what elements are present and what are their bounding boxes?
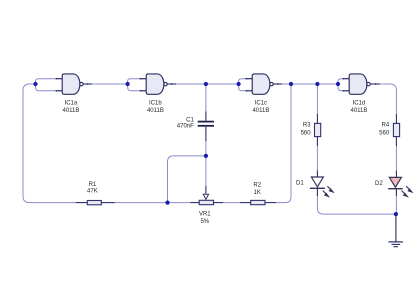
label IC1d xyxy=(350,101,367,115)
svg-text:IC1d: IC1d xyxy=(353,101,366,107)
junction: IC1b input node xyxy=(126,82,130,86)
wire: left feedback loop from IC1a input node down and along bottom to R1 xyxy=(23,84,76,203)
capacitor C1 xyxy=(198,121,214,127)
wire: C1 bottom node left and down to bottom-wire node left of VR1 xyxy=(168,156,206,203)
wire: R3 bottom to D1 anode xyxy=(316,146,318,172)
pin stubs D2 xyxy=(395,171,397,196)
pin stubs D1 xyxy=(316,171,318,197)
svg-text:560: 560 xyxy=(301,130,312,136)
label R2 value xyxy=(253,182,261,195)
nand gate IC1a xyxy=(62,74,83,94)
wire: IC1c input fork branches xyxy=(239,79,253,91)
resistor R3 xyxy=(315,123,321,136)
label IC1c xyxy=(252,101,269,115)
wire: D2 cathode down to ground node xyxy=(395,196,397,215)
junction: R3 branch node xyxy=(315,82,319,86)
resistor R2 xyxy=(251,200,265,204)
junction: VR1 left bottom-rail node xyxy=(165,201,169,205)
wire: C1 bottom to C1 bottom node xyxy=(205,141,207,156)
wire: IC1a input fork branches xyxy=(36,79,63,91)
wire: IC1b output through C1 top node to IC1c input node xyxy=(168,83,239,85)
svg-text:4011B: 4011B xyxy=(62,108,79,114)
svg-text:560: 560 xyxy=(379,130,390,136)
pin stubs R2 xyxy=(240,202,276,204)
wire: C1 top node down to C1 xyxy=(205,84,207,112)
label D1 xyxy=(296,180,304,186)
nand gate IC1b xyxy=(146,74,167,94)
label VR1 value xyxy=(199,212,211,225)
label R4 value xyxy=(379,123,390,137)
pin stubs VR1 xyxy=(191,202,224,204)
nand gate IC1d xyxy=(349,74,370,94)
svg-text:VR1: VR1 xyxy=(199,212,211,218)
pin stubs R1 xyxy=(76,202,115,204)
svg-text:IC1b: IC1b xyxy=(149,101,162,107)
label D2 xyxy=(375,181,383,187)
pin stubs R4 xyxy=(395,114,397,146)
wire: R3 branch from top rail xyxy=(316,84,318,115)
junction: C1 top node xyxy=(204,82,208,86)
svg-text:R2: R2 xyxy=(253,182,261,188)
junction: C1 bottom node xyxy=(204,154,208,158)
wire: VR1 right to R2 left xyxy=(223,202,241,204)
variable resistor VR1 xyxy=(199,186,213,205)
label R1 value xyxy=(87,182,98,195)
label IC1a xyxy=(62,101,79,115)
junction: ground node xyxy=(394,212,398,216)
nand gate IC1c xyxy=(252,74,273,94)
wire: IC1d output to R4 top xyxy=(372,84,396,115)
LED D2 xyxy=(388,177,412,196)
svg-text:IC1c: IC1c xyxy=(255,101,267,107)
svg-text:4011B: 4011B xyxy=(350,108,367,114)
wire: bottom rail between R1 and VR1 (through VR1-left node) xyxy=(114,202,192,204)
pin stubs IC1a xyxy=(56,78,93,92)
wire: IC1a output to IC1b input node xyxy=(84,83,128,85)
label C1 value xyxy=(177,118,195,130)
label IC1b xyxy=(147,101,164,115)
wire: D1 cathode down and right to ground node xyxy=(317,196,396,215)
svg-text:D1: D1 xyxy=(296,180,304,186)
junction: R2 riser node xyxy=(289,82,293,86)
label R3 value xyxy=(301,123,312,137)
svg-text:4011B: 4011B xyxy=(252,108,269,114)
junction: IC1c input node xyxy=(237,82,241,86)
svg-text:1K: 1K xyxy=(254,190,261,196)
junction: IC1a input node xyxy=(33,82,37,86)
pin stubs R3 xyxy=(316,114,318,146)
svg-text:R4: R4 xyxy=(382,123,390,129)
svg-text:D2: D2 xyxy=(375,181,383,187)
junction: IC1d input node xyxy=(336,82,340,86)
svg-text:R3: R3 xyxy=(303,123,311,129)
wire: IC1d input fork branches xyxy=(338,79,350,91)
wire: C1 bottom node down to VR1 wiper xyxy=(205,156,207,187)
pin stubs IC1d xyxy=(343,78,381,92)
wire: IC1b input fork branches xyxy=(128,79,147,91)
resistor R4 xyxy=(393,123,399,136)
resistor R1 xyxy=(87,201,101,205)
ground xyxy=(389,214,404,247)
wire: R4 bottom to D2 anode xyxy=(395,146,397,172)
svg-text:IC1a: IC1a xyxy=(65,101,78,107)
svg-text:470nF: 470nF xyxy=(177,124,194,130)
svg-text:5%: 5% xyxy=(200,219,209,225)
svg-text:47K: 47K xyxy=(87,189,98,195)
wire: R2 right rising to top rail node xyxy=(276,84,292,203)
pin stubs IC1b xyxy=(140,78,177,92)
svg-text:C1: C1 xyxy=(186,118,194,124)
svg-text:R1: R1 xyxy=(89,182,97,188)
svg-text:4011B: 4011B xyxy=(147,108,164,114)
wire: IC1c output through R2-riser node and R3 node to IC1d input node xyxy=(274,83,338,85)
pin stubs IC1c xyxy=(246,78,283,92)
LED D1 xyxy=(310,177,334,197)
pin stubs C1 xyxy=(205,112,207,142)
